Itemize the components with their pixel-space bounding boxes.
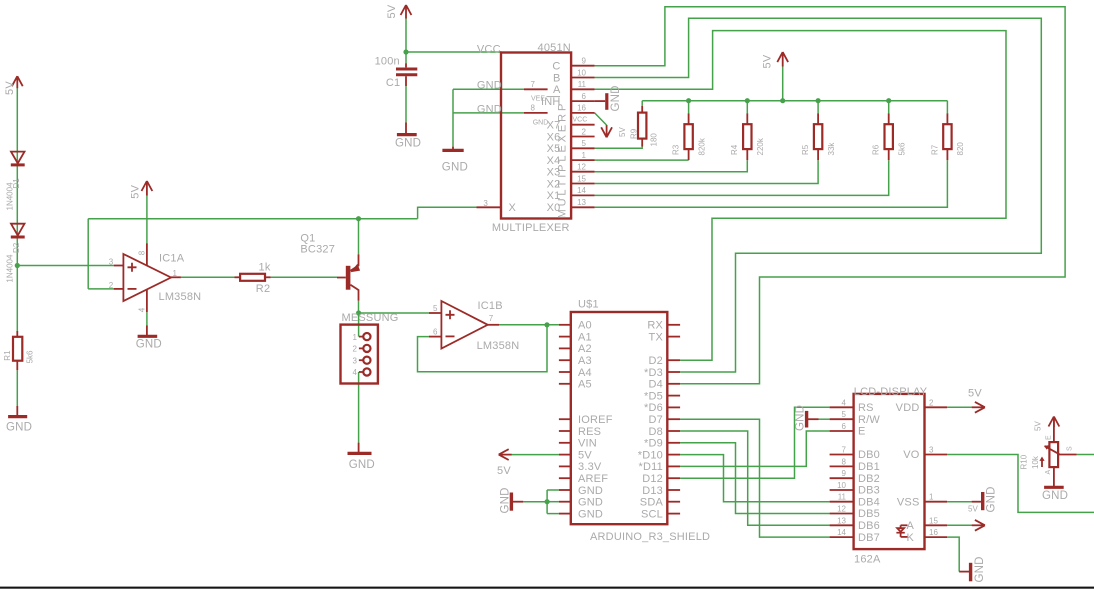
svg-text:2: 2 — [109, 281, 114, 290]
node X-net Q1 — [356, 216, 361, 221]
mux pin 1 — [571, 159, 595, 161]
svg-text:LM358N: LM358N — [159, 291, 202, 303]
lcd left pins 4,5,6,7..14 — [830, 407, 854, 537]
wire to IC1A -in — [88, 288, 114, 290]
svg-text:R3: R3 — [672, 144, 681, 155]
svg-text:AREF: AREF — [578, 473, 608, 485]
svg-text:5: 5 — [842, 410, 847, 419]
svg-text:MULTIPLEXER: MULTIPLEXER — [492, 222, 570, 234]
svg-text:GND: GND — [986, 486, 998, 512]
wire mux pin13 to R7 — [595, 160, 948, 207]
svg-text:5V: 5V — [130, 184, 142, 198]
svg-text:A: A — [1045, 470, 1052, 475]
mux pin 12 — [571, 171, 595, 173]
wire diode junction to IC1A +in — [17, 265, 113, 267]
wire mux pin16 to 5V — [595, 113, 607, 125]
svg-text:*D3: *D3 — [644, 367, 663, 379]
svg-text:*D10: *D10 — [638, 449, 663, 461]
svg-text:K: K — [907, 532, 915, 544]
svg-text:8: 8 — [842, 457, 847, 466]
svg-text:100n: 100n — [375, 56, 400, 68]
svg-text:10: 10 — [837, 481, 846, 490]
supply 5V arrow left rail — [12, 76, 23, 88]
svg-text:13: 13 — [837, 516, 846, 525]
svg-text:5k6: 5k6 — [897, 142, 906, 155]
svg-text:*D9: *D9 — [644, 438, 663, 450]
resistor R1 — [13, 331, 22, 370]
svg-text:D2: D2 — [649, 355, 663, 367]
mux pin 5 — [571, 147, 595, 149]
svg-text:11: 11 — [578, 80, 587, 89]
wire X-net to mux pin3 — [418, 206, 477, 208]
arduino left pins A0-A5,IOREF..GND — [559, 325, 571, 514]
svg-text:11: 11 — [838, 493, 847, 502]
svg-text:5V: 5V — [386, 4, 398, 18]
svg-text:2: 2 — [582, 127, 587, 136]
svg-text:DB6: DB6 — [858, 520, 880, 532]
svg-text:D1: D1 — [12, 178, 21, 189]
svg-text:5V: 5V — [578, 449, 592, 461]
node Q1 collector / IC1B+ — [356, 310, 361, 315]
node rail R5 — [816, 98, 821, 103]
wire Q1 collector down — [358, 301, 360, 313]
wire R5 top lead — [817, 101, 819, 114]
potentiometer R10 — [1039, 419, 1076, 486]
ground at arduino — [511, 493, 523, 511]
wire rail 5V tap — [782, 66, 784, 100]
svg-text:VCC: VCC — [477, 43, 501, 55]
svg-text:R7: R7 — [930, 144, 939, 155]
svg-text:2: 2 — [929, 398, 934, 407]
svg-text:GND: GND — [578, 485, 603, 497]
node IC1B out / A0 — [544, 322, 549, 327]
svg-text:IOREF: IOREF — [578, 414, 613, 426]
wire mux pin14 to R6 — [595, 160, 889, 195]
svg-text:162A: 162A — [854, 554, 881, 566]
svg-text:A3: A3 — [578, 355, 592, 367]
svg-text:D4: D4 — [649, 379, 663, 391]
ground at LCD K — [959, 563, 970, 582]
svg-text:820: 820 — [956, 142, 965, 156]
mux pin 16 — [571, 112, 595, 114]
svg-text:GND: GND — [974, 556, 986, 582]
svg-text:MESSUNG: MESSUNG — [342, 312, 399, 324]
wire D7 to LCD DB7 — [680, 419, 830, 537]
transistor Q1 — [337, 254, 360, 300]
svg-text:A: A — [553, 84, 561, 96]
svg-text:2: 2 — [353, 345, 358, 354]
mux pin 13 — [571, 206, 595, 208]
wire resistor ladder 5V rail — [642, 100, 947, 102]
svg-text:R6: R6 — [872, 144, 881, 155]
svg-text:R2: R2 — [256, 283, 270, 295]
wire node to MESSUNG pin1 — [358, 313, 360, 337]
wire D11 to LCD E — [680, 431, 830, 466]
wire 5V rail left vertical — [16, 88, 18, 331]
svg-text:R9: R9 — [630, 128, 639, 139]
supply 5V arrow left at arduino — [499, 449, 512, 460]
svg-text:DB1: DB1 — [858, 461, 880, 473]
svg-text:16: 16 — [577, 104, 586, 113]
svg-text:5V: 5V — [4, 81, 16, 95]
supply 5V arrow above C1 — [401, 5, 412, 19]
svg-text:5V: 5V — [968, 505, 978, 514]
mux pin 9 — [571, 65, 595, 67]
wire IC1A pin4 to GND — [146, 312, 148, 325]
svg-text:10: 10 — [577, 68, 586, 77]
supply 5V arrow above IC1A — [142, 181, 153, 196]
svg-text:4051N: 4051N — [538, 42, 571, 54]
wire LCD A to 5V — [947, 524, 972, 526]
wire R4 top lead — [746, 101, 748, 114]
svg-text:D7: D7 — [649, 414, 663, 426]
wire Q1 emitter to X-net — [358, 219, 360, 255]
svg-text:VDD: VDD — [896, 402, 920, 414]
svg-text:14: 14 — [577, 186, 586, 195]
svg-text:MULTIPLEXERP: MULTIPLEXERP — [557, 101, 569, 219]
svg-text:D13: D13 — [642, 485, 663, 497]
wire LCD K to GND — [947, 537, 959, 572]
svg-text:5V: 5V — [762, 54, 774, 68]
svg-text:4: 4 — [138, 307, 147, 312]
wire IC1B feedback — [418, 325, 548, 372]
svg-text:X: X — [509, 202, 517, 214]
connector MESSUNG — [341, 325, 378, 384]
ground below R10 — [1044, 486, 1064, 487]
svg-text:D2: D2 — [12, 242, 21, 253]
wire X-net right vertical — [417, 207, 419, 219]
LCD display box — [830, 394, 948, 549]
resistor R5 — [814, 113, 822, 160]
svg-text:C1: C1 — [386, 77, 400, 89]
capacitor C1 — [396, 63, 417, 86]
svg-text:GND: GND — [349, 459, 375, 471]
wire GND vertical left of mux — [452, 89, 454, 146]
ground below C1 — [397, 123, 417, 135]
svg-text:3: 3 — [353, 356, 358, 365]
svg-text:GND: GND — [6, 422, 32, 434]
svg-text:DB2: DB2 — [858, 473, 880, 485]
svg-text:14: 14 — [837, 528, 846, 537]
mux pin 6 — [571, 100, 595, 102]
svg-text:33k: 33k — [827, 142, 836, 156]
wire D8 to LCD DB6 — [680, 431, 830, 525]
svg-text:D8: D8 — [649, 426, 663, 438]
svg-text:5: 5 — [433, 304, 438, 313]
node rail R4 — [745, 98, 750, 103]
mux pin 8 — [524, 112, 548, 114]
wire R9 top — [641, 101, 643, 106]
svg-text:RS: RS — [858, 402, 874, 414]
svg-text:VIN: VIN — [578, 438, 597, 450]
wire mux pin12 to R4 — [595, 160, 748, 172]
wire mux pin5 to R9 — [595, 144, 643, 148]
wire R1 bottom to GND — [16, 370, 18, 406]
svg-text:DB0: DB0 — [858, 449, 880, 461]
mux pin 11 — [571, 88, 595, 90]
svg-text:DB7: DB7 — [858, 532, 880, 544]
wire C1 bottom to GND — [405, 86, 407, 122]
svg-text:VSS: VSS — [897, 496, 920, 508]
wire mux pin11 to bus A — [595, 31, 1006, 361]
svg-text:GND: GND — [500, 487, 512, 513]
svg-text:A4: A4 — [578, 367, 592, 379]
svg-text:S: S — [1067, 446, 1074, 451]
svg-text:GND: GND — [1042, 490, 1068, 502]
svg-text:A0: A0 — [578, 320, 592, 332]
svg-text:*D5: *D5 — [644, 390, 663, 402]
diode D1 — [11, 152, 25, 165]
svg-text:R4: R4 — [730, 144, 739, 155]
lcd right pins 2,3,1,15,16 — [925, 407, 948, 537]
svg-text:DB5: DB5 — [858, 508, 880, 520]
svg-text:GND: GND — [610, 85, 622, 111]
svg-text:7: 7 — [531, 80, 536, 89]
svg-text:RX: RX — [647, 320, 663, 332]
svg-text:VO: VO — [903, 449, 920, 461]
wire D12 to LCD RS — [680, 407, 830, 478]
node rail R6 — [886, 98, 891, 103]
svg-text:6: 6 — [582, 92, 587, 101]
svg-text:GND: GND — [136, 339, 162, 351]
svg-text:1N4004: 1N4004 — [6, 254, 15, 283]
mux pin 14 — [571, 194, 595, 196]
svg-text:16: 16 — [929, 528, 938, 537]
ground at LCD R/W — [807, 411, 819, 428]
wire R2 to Q1 base — [271, 276, 337, 278]
svg-text:R/W: R/W — [858, 414, 880, 426]
diode D2 — [11, 224, 25, 237]
wire mux pin15 to R5 — [595, 160, 819, 183]
wire node to IC1B +in — [359, 312, 429, 314]
svg-text:13: 13 — [577, 198, 586, 207]
wire R7 top lead — [946, 101, 948, 114]
svg-text:3: 3 — [929, 446, 934, 455]
svg-text:LCD-DISPLAY: LCD-DISPLAY — [854, 386, 928, 398]
svg-text:DB3: DB3 — [858, 485, 880, 497]
svg-text:GND: GND — [395, 138, 421, 150]
svg-text:7: 7 — [842, 446, 847, 455]
wire X-net left vertical to IC1A -in — [87, 219, 89, 289]
svg-text:220k: 220k — [756, 137, 765, 155]
svg-text:E: E — [858, 426, 866, 438]
wire LCD R/W to GND — [819, 418, 830, 420]
svg-text:4: 4 — [842, 398, 847, 407]
svg-text:4: 4 — [353, 368, 358, 377]
svg-text:BC327: BC327 — [300, 243, 335, 255]
svg-text:A1: A1 — [578, 331, 592, 343]
resistor R6 — [885, 113, 893, 160]
svg-text:6: 6 — [842, 422, 847, 431]
mux pin 10 — [571, 77, 595, 79]
op-amp IC1B — [429, 301, 499, 349]
wire R10 wiper out — [1077, 454, 1094, 456]
multiplexer 4051N box — [477, 53, 595, 219]
svg-text:5k6: 5k6 — [26, 350, 35, 363]
svg-text:1: 1 — [929, 493, 934, 502]
svg-text:*D6: *D6 — [644, 402, 663, 414]
wire D9 to LCD DB5 — [680, 443, 830, 514]
ground at LCD VSS — [972, 492, 983, 510]
arduino U$1 box — [559, 312, 680, 524]
supply 5V arrow down at mux pin16 — [601, 125, 612, 137]
ground below R1 — [8, 406, 27, 417]
svg-text:12: 12 — [577, 163, 586, 172]
svg-text:GND: GND — [578, 508, 603, 520]
svg-text:GND: GND — [477, 104, 502, 116]
supply 5V arrow above R10 — [1049, 417, 1060, 428]
wire MESSUNG pin4 to GND — [358, 372, 360, 443]
wire VCC node to mux — [406, 51, 502, 53]
wire mux pin10 to bus B — [595, 18, 1042, 372]
svg-text:180: 180 — [650, 133, 659, 147]
mux pin 7 — [524, 88, 548, 90]
svg-text:820k: 820k — [698, 137, 707, 155]
ground below IC1A — [138, 325, 158, 336]
svg-text:GND: GND — [578, 497, 603, 509]
resistor R2 — [235, 274, 271, 281]
svg-text:3: 3 — [109, 258, 114, 267]
svg-text:SCL: SCL — [641, 508, 663, 520]
svg-text:10k: 10k — [1031, 455, 1040, 469]
arduino right pins RX..SCL — [667, 325, 680, 514]
wire mux pin9 to bus C — [595, 7, 1066, 384]
svg-text:IC1B: IC1B — [478, 300, 503, 312]
svg-text:DB4: DB4 — [858, 496, 880, 508]
wire IC1B out to A0 — [499, 324, 559, 326]
wire GND to mux pin8 — [453, 112, 524, 114]
svg-text:3: 3 — [483, 199, 488, 208]
wire D10 to LCD DB4 — [680, 455, 830, 502]
svg-text:5: 5 — [582, 139, 587, 148]
svg-text:5V: 5V — [1034, 421, 1043, 431]
svg-text:GND: GND — [795, 405, 807, 431]
svg-text:R5: R5 — [801, 144, 810, 155]
svg-text:R1: R1 — [3, 350, 12, 361]
ground at mux pin6 — [595, 93, 607, 110]
node diode rail tap — [15, 263, 20, 268]
svg-text:SDA: SDA — [640, 497, 664, 509]
node arduino GND — [545, 499, 550, 504]
svg-text:8: 8 — [138, 250, 147, 255]
wire arduino GND pins — [523, 501, 547, 503]
wire arduino 5V pin — [511, 454, 559, 456]
wire R6 top lead — [888, 101, 890, 114]
svg-text:RES: RES — [578, 426, 601, 438]
svg-text:9: 9 — [582, 57, 587, 66]
svg-text:15: 15 — [929, 516, 938, 525]
wire LCD VSS to GND — [947, 501, 972, 503]
wire 5V to C1 node — [405, 18, 407, 63]
svg-text:15: 15 — [577, 174, 586, 183]
svg-text:3.3V: 3.3V — [578, 461, 602, 473]
svg-text:GND: GND — [442, 162, 468, 174]
wire X-net horizontal — [88, 218, 417, 220]
svg-text:IC1A: IC1A — [159, 253, 185, 265]
supply 5V arrow right at LCD A — [972, 520, 985, 531]
node rail R3 — [686, 98, 691, 103]
svg-text:*D11: *D11 — [639, 461, 663, 473]
svg-text:ARDUINO_R3_SHIELD: ARDUINO_R3_SHIELD — [590, 531, 710, 543]
svg-text:1: 1 — [173, 269, 178, 278]
supply 5V arrow right at LCD VDD — [972, 402, 985, 413]
svg-text:1: 1 — [582, 151, 587, 160]
svg-text:A: A — [907, 520, 915, 532]
svg-text:VCC: VCC — [573, 116, 588, 123]
mux pin 4 — [571, 124, 595, 126]
svg-text:TX: TX — [649, 331, 664, 343]
svg-text:1k: 1k — [259, 261, 271, 273]
resistor R4 — [743, 113, 751, 160]
svg-text:A5: A5 — [578, 379, 592, 391]
svg-text:5V: 5V — [497, 465, 511, 477]
lcd backlight LED symbol — [896, 525, 907, 537]
wire 5V to IC1A pin8 — [146, 195, 148, 243]
svg-text:9: 9 — [842, 469, 847, 478]
resistor R9 — [638, 106, 646, 147]
svg-text:C: C — [552, 61, 560, 73]
mux pin 15 — [571, 183, 595, 185]
svg-text:5V: 5V — [618, 127, 627, 137]
svg-text:12: 12 — [837, 505, 846, 514]
svg-text:D12: D12 — [642, 473, 663, 485]
supply 5V arrow at rail — [777, 52, 788, 66]
svg-text:1: 1 — [353, 333, 358, 342]
wire GND to mux pin7 — [453, 88, 524, 90]
sheet frame bottom — [0, 587, 1094, 589]
ground below MESSUNG — [348, 443, 372, 454]
op-amp IC1A — [114, 243, 181, 312]
svg-text:5V: 5V — [968, 388, 982, 400]
svg-text:6: 6 — [433, 327, 438, 336]
resistor R3 — [684, 113, 692, 160]
svg-text:E: E — [1046, 435, 1053, 440]
svg-text:7: 7 — [489, 314, 494, 323]
svg-text:B: B — [553, 72, 561, 84]
mux pin 3 — [477, 206, 502, 208]
svg-text:A2: A2 — [578, 343, 592, 355]
node rail 5V — [780, 98, 785, 103]
wire IC1A out to R2 — [181, 276, 235, 278]
svg-text:U$1: U$1 — [578, 299, 599, 311]
ground left of multiplexer — [442, 147, 463, 151]
wire LCD VO — [947, 455, 1094, 513]
svg-text:GND: GND — [477, 80, 502, 92]
svg-text:R10: R10 — [1020, 454, 1029, 469]
mux pin 2 — [571, 136, 595, 138]
svg-text:LM358N: LM358N — [477, 340, 520, 352]
resistor R7 — [943, 113, 951, 160]
wire R3 top lead — [688, 101, 690, 114]
svg-text:8: 8 — [531, 104, 536, 113]
wire LCD VDD to 5V — [947, 406, 972, 408]
wire mux pin1 to R3 — [595, 159, 689, 161]
node VCC/C1 — [403, 49, 408, 54]
